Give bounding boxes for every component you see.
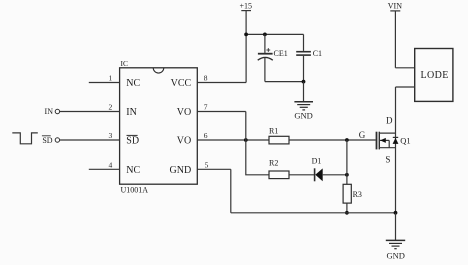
transistor Q1 body stub vertical — [388, 140, 390, 147]
capacitor CE1 positive plate — [258, 53, 273, 55]
capacitor CE1 top lead — [264, 34, 266, 53]
transistor Q1 body stub — [379, 139, 389, 141]
svg-text:R1: R1 — [269, 127, 278, 136]
node junction CE1 top — [263, 33, 267, 37]
net VIN bar — [390, 10, 400, 12]
svg-text:NC: NC — [126, 165, 140, 176]
capacitor CE1 curved plate — [258, 57, 273, 60]
transistor Q1 body arrow — [380, 138, 386, 143]
wire gate — [347, 139, 376, 141]
wire pin1 stub NC — [89, 82, 120, 84]
net label VIN — [388, 1, 402, 10]
svg-text:6: 6 — [204, 131, 208, 140]
wire gate node down to R3 — [346, 140, 348, 184]
svg-text:R2: R2 — [269, 159, 278, 168]
ground label GND (source) — [386, 251, 404, 261]
ground symbol (source) — [386, 240, 405, 248]
svg-text:+15: +15 — [240, 1, 253, 10]
capacitor C1 plates — [296, 52, 311, 55]
wire +15 vertical down to VCC node — [245, 11, 247, 83]
node junction +15/VCC — [244, 33, 248, 37]
svg-text:VO: VO — [177, 136, 191, 147]
capacitor CE1 bottom lead — [264, 58, 266, 82]
pin NC label (1) — [126, 78, 140, 89]
capacitor CE1 plus sign — [266, 48, 270, 52]
wire VO node down to R2 branch — [246, 140, 269, 175]
svg-text:VCC: VCC — [171, 78, 192, 89]
wire ground lead right — [395, 213, 397, 241]
pin VCC label (8) — [171, 78, 192, 89]
svg-text:LODE: LODE — [420, 70, 448, 81]
wire VIN vertical — [394, 11, 396, 68]
svg-text:3: 3 — [109, 131, 113, 140]
wire pin7 down to VO node — [245, 112, 247, 141]
svg-text:IN: IN — [45, 107, 54, 116]
svg-text:2: 2 — [109, 103, 113, 112]
svg-text:VO: VO — [177, 107, 191, 118]
wire bottom rail — [231, 212, 396, 214]
wire pin8 stub — [197, 82, 246, 84]
capacitor C1 top lead — [303, 34, 305, 51]
pulse waveform symbol — [12, 133, 38, 144]
wire ground lead — [303, 82, 305, 102]
pin VO label (7) — [177, 107, 191, 118]
svg-text:S: S — [385, 154, 390, 164]
resistor R1 label — [269, 127, 278, 136]
op-amp U1001A body — [120, 68, 198, 184]
pin 5 number — [205, 161, 209, 170]
wire top rail horizontal to capacitors — [246, 33, 303, 35]
svg-text:IC: IC — [121, 59, 129, 68]
node junction R3 bottom — [345, 211, 349, 215]
input terminal SD label with overline — [42, 136, 53, 145]
wire pin5 vertical — [230, 169, 232, 213]
transistor Q1 source label S — [385, 154, 390, 164]
op-amp U1001A reference label — [121, 185, 149, 194]
op-amp U1001A notch — [153, 68, 164, 73]
svg-text:NC: NC — [126, 78, 140, 89]
svg-text:C1: C1 — [313, 49, 322, 58]
svg-text:CE1: CE1 — [274, 49, 288, 58]
input terminal IN circle — [55, 109, 59, 113]
wire capacitor bottom rail — [265, 81, 304, 83]
pin 3 number — [109, 131, 113, 140]
wire pin4 stub NC — [89, 168, 120, 170]
wire load to drain — [396, 86, 415, 88]
transistor Q1 gate label G — [359, 130, 366, 140]
svg-text:D1: D1 — [312, 156, 322, 165]
svg-text:GND: GND — [294, 111, 312, 121]
svg-text:G: G — [359, 130, 366, 140]
wire drain vertical — [395, 87, 397, 213]
resistor R2 — [269, 171, 289, 179]
pin 2 number — [109, 103, 113, 112]
svg-text:GND: GND — [170, 165, 192, 176]
wire IN to pin2 — [60, 111, 120, 113]
input terminal SD circle — [55, 138, 59, 142]
transistor Q1 body diode — [393, 137, 399, 144]
svg-text:1: 1 — [109, 74, 113, 83]
wire R3 bottom lead — [346, 203, 348, 213]
pin 4 number — [109, 161, 113, 170]
svg-text:GND: GND — [386, 251, 404, 261]
diode D1 label — [312, 156, 322, 165]
svg-text:U1001A: U1001A — [121, 185, 149, 194]
transistor Q1 drain label D — [386, 116, 393, 126]
ground symbol (caps) — [294, 102, 313, 110]
node junction D1/R3 — [345, 173, 349, 177]
svg-text:8: 8 — [204, 74, 208, 83]
pin 8 number — [204, 74, 208, 83]
capacitor C1 bottom lead — [303, 56, 305, 82]
transistor Q1 reference label — [400, 135, 410, 145]
wire R2 to D1 — [289, 174, 314, 176]
IC label — [121, 59, 129, 68]
pin 6 number — [204, 131, 208, 140]
svg-text:IN: IN — [126, 107, 137, 118]
capacitor C1 label — [313, 49, 322, 58]
svg-text:Q1: Q1 — [400, 135, 410, 145]
transistor Q1 drain arm — [379, 132, 395, 134]
power rail +15 bar — [241, 10, 251, 12]
wire pin7 stub — [197, 111, 245, 113]
pin VO label (6) — [177, 136, 191, 147]
resistor R1 — [269, 136, 289, 144]
pin NC label (4) — [126, 165, 140, 176]
svg-text:7: 7 — [204, 103, 208, 112]
input terminal IN label — [45, 107, 54, 116]
svg-text:SD: SD — [126, 136, 139, 147]
ground label GND (caps) — [294, 111, 312, 121]
svg-text:VIN: VIN — [388, 1, 402, 10]
pin 7 number — [204, 103, 208, 112]
wire pin5 stub — [197, 168, 230, 170]
resistor R3 — [343, 184, 351, 203]
resistor R3 label — [353, 190, 362, 199]
resistor R2 label — [269, 159, 278, 168]
node junction VO — [244, 138, 248, 142]
svg-text:4: 4 — [109, 161, 113, 170]
transistor Q1 gate bar — [376, 132, 378, 150]
pin IN label (2) — [126, 107, 137, 118]
transistor Q1 source arm — [379, 147, 395, 149]
pin 1 number — [109, 74, 113, 83]
transistor Q1 channel bar — [378, 132, 380, 150]
node junction cap bottom / ground — [302, 80, 306, 84]
svg-text:R3: R3 — [353, 190, 362, 199]
wire R1 to gate node — [289, 139, 347, 141]
wire SD to pin3 — [60, 139, 120, 141]
diode D1 triangle — [315, 168, 322, 181]
node junction source/ground — [394, 211, 398, 215]
wire VIN to load — [395, 67, 414, 69]
wire pin6 to R1 — [197, 139, 269, 141]
capacitor CE1 label — [274, 49, 288, 58]
load box U? LODE — [415, 49, 453, 102]
power rail +15 label — [240, 1, 253, 10]
svg-text:D: D — [386, 116, 393, 126]
svg-text:5: 5 — [205, 161, 209, 170]
diode D1 cathode bar — [314, 168, 316, 181]
pin GND label (5) — [170, 165, 192, 176]
node junction gate — [345, 138, 349, 142]
pin SD label (3) with overline — [126, 135, 139, 146]
wire D1 to gate branch — [323, 174, 347, 176]
svg-text:SD: SD — [42, 136, 52, 145]
